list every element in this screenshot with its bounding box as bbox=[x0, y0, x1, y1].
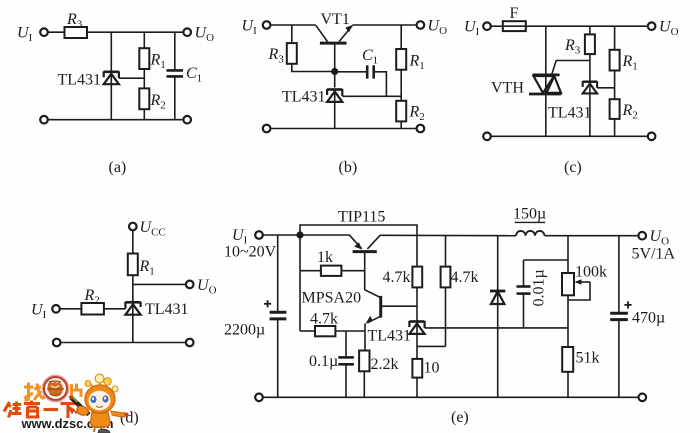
wire TL431 cathode branch (a) bbox=[110, 32, 112, 71]
wire input to fuse (c) bbox=[491, 25, 503, 27]
terminal bottom-left (e) bbox=[255, 394, 263, 402]
terminal U_O (c) bbox=[648, 22, 656, 30]
wire R1 bottom to TL431 cathode (d) bbox=[132, 275, 134, 302]
capacitor C1 (a) bbox=[167, 65, 203, 85]
fuse F (c) bbox=[503, 5, 526, 31]
svg-text:5V/1A: 5V/1A bbox=[632, 246, 676, 263]
terminal bottom-left (d) bbox=[53, 339, 61, 347]
op-amp/shunt-ref TL431 U1 (a) bbox=[58, 71, 119, 89]
terminal bottom-right (c) bbox=[648, 133, 656, 141]
terminal U_I (e) bbox=[255, 231, 263, 239]
wire base node to C1 (b) bbox=[335, 71, 366, 73]
wire top rail (a) bbox=[87, 31, 183, 33]
resistor 4.7k horizontal (e) bbox=[300, 311, 365, 337]
op-amp/shunt-ref TL431 (c) bbox=[583, 81, 597, 94]
resistor R3 (a) bbox=[65, 11, 88, 38]
wire R2 bottom (a) bbox=[143, 109, 145, 120]
wire TL431 anode to bottom rail (c) bbox=[589, 94, 591, 137]
wire R3 top (c) bbox=[589, 26, 591, 34]
svg-text:1k: 1k bbox=[317, 249, 333, 266]
wire TL431 ref line long (e) bbox=[425, 327, 568, 329]
terminal U_I (c) bbox=[483, 22, 491, 30]
wire bottom rail (c) bbox=[491, 135, 648, 137]
resistor R1 (c) bbox=[610, 50, 638, 73]
svg-text:(d): (d) bbox=[120, 410, 139, 427]
wire anode link to 4.7k2 (e) bbox=[417, 345, 446, 347]
svg-text:4.7k: 4.7k bbox=[383, 269, 411, 286]
terminal bottom-right (a) bbox=[183, 116, 191, 124]
diode D1 freewheel (e) bbox=[490, 236, 505, 398]
wire C1 top (a) bbox=[174, 32, 176, 70]
wire U_I to R2 (d) bbox=[60, 308, 82, 310]
terminal U_O (b) bbox=[417, 21, 425, 29]
svg-text:0.1µ: 0.1µ bbox=[309, 353, 338, 370]
inductor 150u (e) bbox=[513, 206, 546, 236]
svg-text:4.7k: 4.7k bbox=[310, 311, 338, 328]
wire R1 to R2 (c) bbox=[614, 71, 616, 100]
terminal U_I (a) bbox=[40, 28, 48, 36]
svg-text:MPSA20: MPSA20 bbox=[302, 290, 362, 307]
wire TIP115 base vertical (e) bbox=[364, 252, 366, 291]
resistor R2 (d) bbox=[81, 287, 104, 315]
svg-text:TL431: TL431 bbox=[145, 301, 189, 318]
wire TL431 anode down (e) bbox=[416, 334, 418, 359]
capacitor C1 (b) bbox=[362, 47, 378, 79]
resistor R2 (c) bbox=[610, 99, 638, 121]
terminal bottom-left (c) bbox=[483, 133, 491, 141]
wire R3 bottom to TL431 (c) bbox=[589, 54, 591, 81]
watermark mascot bbox=[70, 374, 129, 433]
wire TL431 ref to divider (c) bbox=[597, 87, 615, 89]
svg-text:TL431: TL431 bbox=[58, 72, 102, 89]
svg-text:TL431: TL431 bbox=[548, 105, 592, 122]
wire TL431 ref line to divider (b) bbox=[342, 95, 401, 97]
wire R1 top (a) bbox=[143, 32, 145, 48]
terminal U_I (d) bbox=[52, 305, 60, 313]
svg-text:2200µ: 2200µ bbox=[224, 322, 265, 339]
wire VTH cathode to bottom rail (c) bbox=[545, 94, 547, 136]
svg-text:(e): (e) bbox=[451, 409, 469, 426]
resistor 51k (e) bbox=[562, 328, 599, 397]
junction dot input node (e) bbox=[296, 231, 303, 238]
transistor VT1 (b) bbox=[316, 11, 353, 43]
svg-text:VT1: VT1 bbox=[321, 11, 350, 28]
wire R1-R2 junction (a) bbox=[143, 69, 145, 88]
wire VT1 base vertical (b) bbox=[334, 43, 336, 87]
wire TL431 ref to divider (a) bbox=[119, 77, 144, 79]
wire R1 to R2 (b) bbox=[400, 70, 402, 101]
wire left branch vertical (e) bbox=[299, 235, 301, 331]
junction dot base node (b) bbox=[331, 68, 338, 75]
svg-text:10: 10 bbox=[424, 360, 440, 377]
wire R1 top (b) bbox=[400, 25, 402, 49]
wire input to R3 (a) bbox=[48, 31, 65, 33]
watermark logo group bbox=[4, 374, 129, 433]
svg-text:F: F bbox=[510, 5, 519, 22]
terminal U_O (a) bbox=[183, 28, 191, 36]
wire C1 bottom (a) bbox=[174, 77, 176, 120]
terminal bottom-left (b) bbox=[263, 125, 271, 133]
op-amp/shunt-ref TL431 (b) bbox=[282, 89, 342, 106]
resistor R2 (b) bbox=[396, 101, 425, 123]
resistor 4.7k second vertical (e) bbox=[441, 236, 479, 347]
transistor MPSA20 Q2 (e) bbox=[302, 290, 381, 324]
watermark text weikuyixia bbox=[4, 401, 77, 419]
wire VTH anode branch (c) bbox=[545, 26, 547, 94]
wire input rail to TIP115 emitter (e) bbox=[263, 234, 350, 236]
capacitor 0.01u (e) bbox=[517, 260, 569, 328]
resistor R3 (b) bbox=[268, 43, 297, 65]
svg-text:TL431: TL431 bbox=[282, 89, 326, 106]
wire TL431 anode to bottom rail (b) bbox=[334, 102, 336, 129]
terminal bottom-right (d) bbox=[186, 339, 194, 347]
wire output tap (d) bbox=[133, 283, 186, 285]
transistor TIP115 Q1 (e) bbox=[338, 209, 385, 252]
op-amp/shunt-ref TL431 (d) bbox=[125, 302, 140, 315]
wire input to VT1 collector (b) bbox=[270, 24, 315, 26]
wire U_CC to R1 (d) bbox=[132, 230, 134, 253]
svg-text:150µ: 150µ bbox=[513, 206, 546, 223]
svg-text:10~20V: 10~20V bbox=[224, 244, 277, 261]
terminal bottom-left (a) bbox=[40, 116, 48, 124]
wire R3 bottom to base node (b) bbox=[292, 64, 335, 72]
resistor R2 (a) bbox=[139, 88, 165, 111]
terminal U_O (d) bbox=[186, 281, 194, 289]
wire bottom rail (e) bbox=[263, 396, 639, 398]
wire TL431 anode to bottom rail (a) bbox=[110, 84, 112, 120]
resistor R3 (c) bbox=[564, 34, 595, 56]
resistor 4.7k first vertical (e) bbox=[383, 267, 423, 288]
wire bottom rail (d) bbox=[61, 342, 186, 344]
wire top rail (c) bbox=[526, 25, 648, 27]
resistor R1 (a) bbox=[139, 48, 165, 71]
terminal U_I (b) bbox=[263, 21, 271, 29]
thyristor VTH (c) bbox=[491, 61, 590, 97]
terminal bottom-right (b) bbox=[417, 125, 425, 133]
wire TL431 anode to bottom rail (d) bbox=[132, 315, 134, 343]
capacitor 2200u electrolytic (e) bbox=[224, 235, 286, 397]
wire MPSA20 emitter down (e) bbox=[364, 324, 366, 351]
svg-text:(c): (c) bbox=[564, 159, 582, 176]
resistor R1 (b) bbox=[396, 49, 425, 72]
watermark text zhao bbox=[24, 383, 45, 401]
watermark magnifier bbox=[42, 375, 68, 401]
svg-text:TIP115: TIP115 bbox=[338, 209, 385, 226]
terminal U_CC (d) bbox=[129, 223, 137, 231]
wire collector rail to inductor (e) bbox=[380, 234, 516, 236]
svg-text:(a): (a) bbox=[109, 159, 127, 176]
wire R2 bottom (c) bbox=[614, 119, 616, 136]
resistor 2.2k (e) bbox=[359, 351, 398, 398]
svg-text:(b): (b) bbox=[339, 159, 358, 176]
wire R2 bottom (b) bbox=[400, 121, 402, 128]
wire R2 to TL431 ref (d) bbox=[104, 308, 126, 310]
wire C1 right to ref line (b) bbox=[375, 72, 387, 97]
wire MPSA20 base to TL431 branch (e) bbox=[381, 305, 417, 307]
resistor 10 (e) bbox=[412, 359, 439, 397]
capacitor 470u electrolytic (e) bbox=[610, 236, 665, 398]
wire bottom rail (b) bbox=[270, 128, 416, 130]
capacitor 0.1u (e) bbox=[309, 331, 354, 397]
wire R3 top (b) bbox=[291, 25, 293, 43]
op-amp/shunt-ref TL431 (e) bbox=[368, 321, 425, 345]
wire bottom rail (a) bbox=[48, 119, 184, 121]
wire VT1 emitter to output (b) bbox=[352, 24, 416, 26]
svg-text:VTH: VTH bbox=[491, 80, 524, 97]
svg-text:2.2k: 2.2k bbox=[371, 356, 399, 373]
wire base-feed loop top (e) bbox=[300, 225, 417, 267]
watermark text pian bbox=[72, 384, 82, 398]
wire 4.7k to TL431 cathode (e) bbox=[416, 287, 418, 321]
resistor R1 (d) bbox=[128, 254, 155, 278]
svg-text:4.7k: 4.7k bbox=[451, 269, 479, 286]
svg-text:470µ: 470µ bbox=[632, 310, 665, 327]
potentiometer 100k (e) bbox=[562, 236, 607, 328]
svg-text:TL431: TL431 bbox=[368, 328, 412, 345]
terminal bottom-right (e) bbox=[639, 394, 647, 402]
svg-text:51k: 51k bbox=[576, 350, 600, 367]
wire inductor to output (e) bbox=[545, 235, 639, 237]
wire R1 top (c) bbox=[614, 26, 616, 50]
svg-text:0.01µ: 0.01µ bbox=[531, 269, 548, 306]
resistor 1k (e) bbox=[300, 249, 365, 276]
terminal U_O (e) bbox=[638, 232, 646, 240]
svg-text:100k: 100k bbox=[575, 264, 607, 281]
